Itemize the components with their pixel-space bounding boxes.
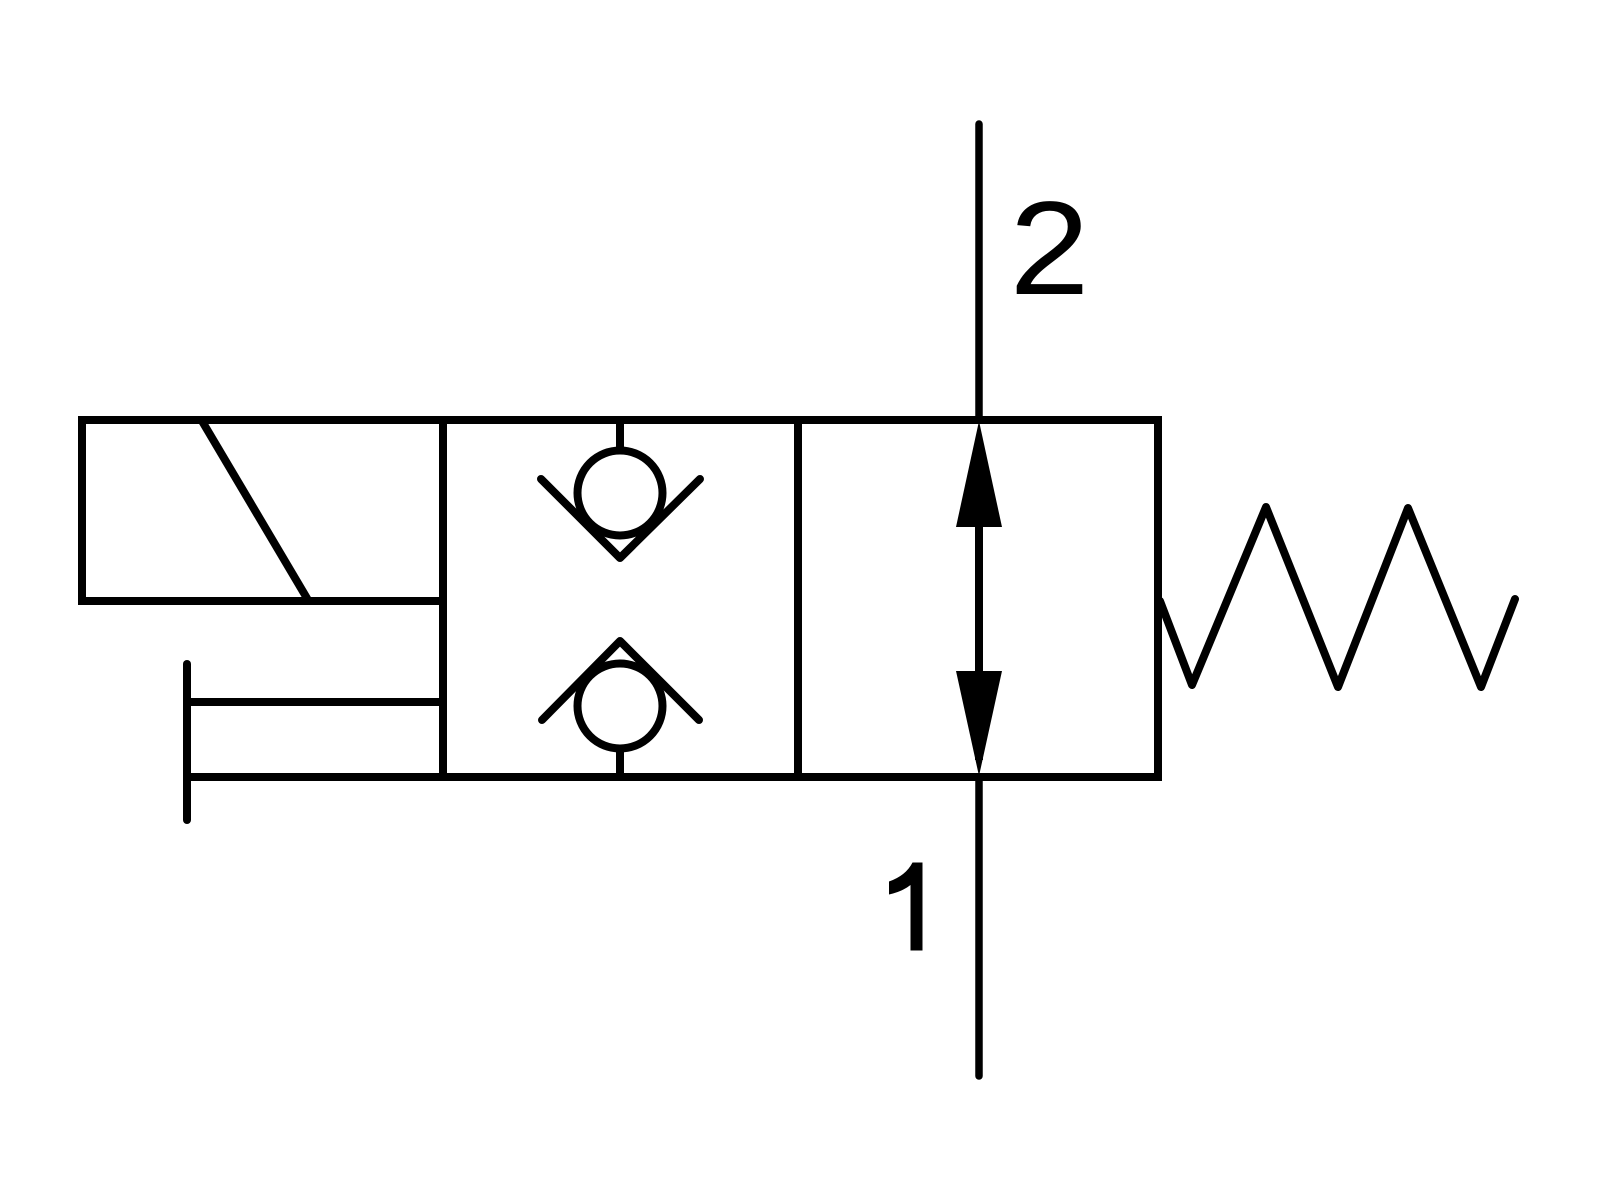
solenoid coil box <box>82 420 443 601</box>
valve position divider <box>794 420 802 777</box>
manual override lower rod / valve bottom rail <box>187 773 443 781</box>
return spring zigzag <box>1160 507 1515 687</box>
check valve CV2 ball <box>578 664 663 749</box>
check valve CV2 seat (inverted V) <box>542 641 699 720</box>
svg-text:2: 2 <box>1010 175 1090 323</box>
check valve CV1 stub wire <box>616 420 624 452</box>
label: port 1 <box>889 863 923 951</box>
flow path arrowhead down <box>956 671 1002 776</box>
check valve CV1 ball <box>578 451 663 536</box>
manual override upper rod <box>187 698 443 706</box>
check valve CV1 seat (V) <box>541 479 700 558</box>
flow path arrowhead up <box>956 421 1002 527</box>
wire: port 1 line (bottom vertical) <box>975 777 983 1076</box>
manual override T-bar <box>183 664 191 820</box>
solenoid diagonal stroke <box>202 421 308 600</box>
flow path arrow shaft <box>975 440 983 760</box>
check valve CV2 stub wire <box>616 749 624 777</box>
valve body outer frame <box>443 420 1158 777</box>
wire: port 2 line (top vertical) <box>975 124 983 420</box>
